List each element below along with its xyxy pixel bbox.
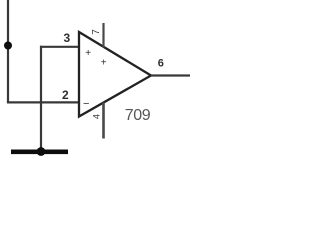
- wire: pin 2 horizontal (inverting input): [7, 101, 79, 103]
- ground rail: [11, 150, 68, 155]
- wire: output pin 6: [151, 74, 190, 76]
- wire: vertical to ground rail: [40, 46, 42, 151]
- node: junction dot on left wire: [4, 42, 12, 50]
- svg-text:+: +: [85, 48, 91, 59]
- wire: left vertical net: [7, 0, 9, 102]
- wire: pin 3 horizontal (non-inverting input): [40, 46, 79, 48]
- pin 7 wire: top supply pin: [102, 23, 104, 48]
- pin 4 wire: bottom supply pin: [102, 103, 105, 139]
- svg-text:−: −: [83, 98, 89, 110]
- svg-text:4: 4: [92, 114, 102, 119]
- op-amp U1 triangle body: [79, 32, 151, 117]
- svg-text:7: 7: [91, 29, 102, 35]
- svg-text:3: 3: [64, 31, 71, 45]
- svg-text:709: 709: [125, 107, 151, 124]
- node: junction dot on ground rail: [37, 147, 46, 156]
- svg-text:2: 2: [62, 88, 69, 102]
- svg-text:6: 6: [158, 58, 164, 70]
- svg-text:+: +: [101, 58, 107, 69]
